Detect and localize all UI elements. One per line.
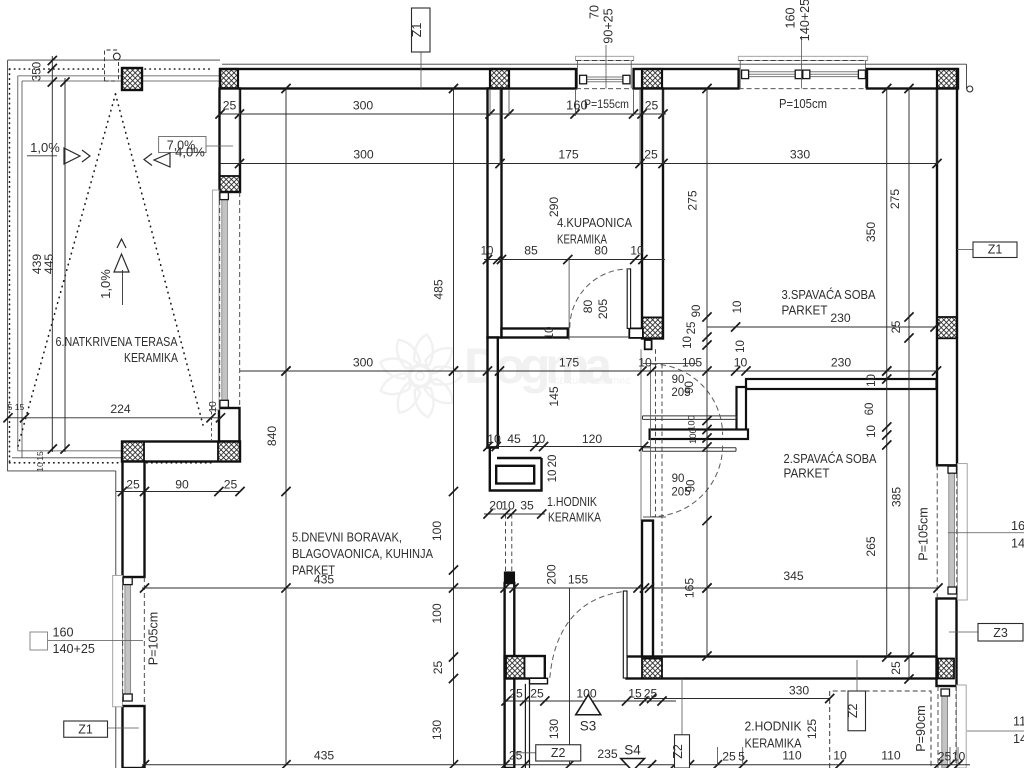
window right A <box>957 464 967 600</box>
roof overhang line top <box>222 63 967 65</box>
terrace outer edge bottom <box>8 470 116 472</box>
dim row bottom long <box>142 764 970 766</box>
svg-text:105: 105 <box>682 356 703 370</box>
svg-text:10: 10 <box>734 356 748 370</box>
leader Z1 right <box>957 249 973 251</box>
svg-text:25: 25 <box>530 687 544 701</box>
svg-text:330: 330 <box>790 148 811 162</box>
svg-text:100: 100 <box>430 603 444 624</box>
wall band terrace-living <box>122 442 240 462</box>
window left wing <box>212 190 219 410</box>
svg-text:5: 5 <box>8 402 13 412</box>
watermark logo <box>377 333 631 419</box>
Z2 box c <box>848 691 866 731</box>
door arc living-hodnik2 <box>550 592 624 678</box>
svg-text:1.HODNIK: 1.HODNIK <box>547 494 597 509</box>
svg-text:140+: 140+ <box>1013 732 1024 746</box>
svg-text:3.SPAVAĆA SOBA: 3.SPAVAĆA SOBA <box>782 287 876 302</box>
door opening dash hodnik right <box>655 349 657 517</box>
svg-text:S3: S3 <box>580 719 597 734</box>
wall left living lower <box>123 706 145 768</box>
extension ticks bottom <box>716 747 718 765</box>
hatch right wall <box>937 317 957 338</box>
dim line 275 left <box>706 89 708 657</box>
svg-text:100: 100 <box>430 521 444 542</box>
window left label box <box>30 632 48 650</box>
svg-text:Z2: Z2 <box>551 746 566 760</box>
svg-text:10: 10 <box>866 374 878 387</box>
door leaf line hodnik-room2 <box>643 516 666 518</box>
svg-text:175: 175 <box>558 148 579 162</box>
sliding door track upper <box>643 415 737 417</box>
dim line 840 <box>285 89 287 765</box>
terrace dotted boundary top <box>10 68 106 70</box>
wall right column <box>937 599 957 687</box>
wall bathroom left <box>488 89 502 338</box>
svg-text:275: 275 <box>686 190 700 211</box>
parallel wall lines below <box>524 684 526 768</box>
svg-text:25: 25 <box>644 148 658 162</box>
svg-text:345: 345 <box>783 569 804 583</box>
wall face lines hodnik openings <box>640 349 642 520</box>
dim row room3 230 <box>707 326 937 328</box>
wall bottom band west <box>505 656 545 679</box>
svg-text:25: 25 <box>891 321 903 334</box>
svg-text:25: 25 <box>645 99 659 113</box>
svg-text:10: 10 <box>952 750 966 764</box>
dim row top first <box>220 113 666 115</box>
wall right upper <box>937 89 957 466</box>
door arc bathroom <box>570 269 629 328</box>
svg-text:10: 10 <box>501 499 515 513</box>
svg-text:Z2: Z2 <box>846 703 860 718</box>
hatch left wing <box>220 176 241 192</box>
wall top segment A <box>220 69 576 89</box>
shaft inner box <box>496 466 534 484</box>
section mark S3 <box>576 695 601 715</box>
svg-text:385: 385 <box>890 487 904 508</box>
terrace outer edge top <box>8 59 220 61</box>
closet dashed outline hodnik2 <box>830 691 931 768</box>
svg-text:20: 20 <box>547 455 559 468</box>
wall hodnik right lower <box>642 521 653 657</box>
svg-text:35: 35 <box>520 499 534 513</box>
dim row middle long <box>240 370 937 372</box>
svg-text:435: 435 <box>314 749 335 763</box>
window right B <box>956 685 966 768</box>
terrace wall dash piece <box>211 406 213 440</box>
building edge line below terrace <box>115 471 117 768</box>
svg-text:445: 445 <box>42 254 56 275</box>
svg-text:Z3: Z3 <box>993 626 1008 640</box>
svg-text:5.DNEVNI BORAVAK,: 5.DNEVNI BORAVAK, <box>292 530 402 545</box>
svg-text:140+25: 140+25 <box>53 642 95 656</box>
svg-text:90: 90 <box>691 305 703 318</box>
threshold step living door <box>530 678 548 684</box>
svg-text:P=155cm: P=155cm <box>584 97 629 111</box>
dim row door 100 <box>504 700 676 702</box>
svg-text:140+25: 140+25 <box>798 0 812 41</box>
svg-text:110: 110 <box>1013 715 1024 729</box>
svg-text:130: 130 <box>547 719 561 740</box>
dim row 330 hodnik2 <box>634 698 830 700</box>
wall bathroom bottom <box>502 329 568 338</box>
svg-text:5: 5 <box>738 750 745 764</box>
svg-text:85: 85 <box>524 244 538 258</box>
svg-text:300: 300 <box>353 99 374 113</box>
extension lines top dims <box>489 90 491 116</box>
wall bathroom right <box>642 89 663 339</box>
svg-text:Z1: Z1 <box>410 23 424 38</box>
wall z-vertical <box>737 387 747 439</box>
svg-text:165: 165 <box>683 578 697 599</box>
hatch wall top-mid <box>642 69 662 89</box>
wall left wing <box>220 89 241 193</box>
svg-text:25: 25 <box>938 750 952 764</box>
terrace inner edge lines bottom <box>18 450 220 452</box>
window P=155 top <box>576 56 634 60</box>
terrace dotted boundary bottom <box>10 462 214 464</box>
svg-text:110: 110 <box>881 749 901 763</box>
svg-text:205: 205 <box>596 299 610 320</box>
hatch bathroom right <box>642 317 663 338</box>
Z3 box <box>978 624 1023 642</box>
svg-text:90: 90 <box>175 478 189 492</box>
Z2 box b <box>675 735 690 768</box>
dim row top second <box>220 163 937 165</box>
leader Z1 bottomleft <box>108 727 139 729</box>
svg-text:4,0%: 4,0% <box>175 145 205 160</box>
svg-text:60: 60 <box>864 403 876 416</box>
svg-text:PARKET: PARKET <box>292 563 335 578</box>
svg-text:25: 25 <box>224 478 238 492</box>
svg-text:10: 10 <box>207 401 219 413</box>
svg-text:16: 16 <box>1011 519 1024 533</box>
sliding door track lower <box>643 447 737 449</box>
svg-text:6.NATKRIVENA TERASA: 6.NATKRIVENA TERASA <box>56 334 178 349</box>
downpipe circle top-left <box>113 53 120 60</box>
roof overhang line right <box>966 64 968 89</box>
svg-text:140+2: 140+2 <box>1011 537 1024 551</box>
svg-text:110: 110 <box>782 749 802 763</box>
door jamb black hodnik2 <box>505 572 515 583</box>
svg-text:10: 10 <box>532 432 546 446</box>
svg-text:25: 25 <box>431 661 445 675</box>
wall bottom band east <box>627 657 937 679</box>
svg-text:10: 10 <box>866 425 878 438</box>
dim line 485 <box>453 89 455 765</box>
dim row bathroom <box>484 259 665 261</box>
svg-text:AGENCIJA ZA NEKRETNINE: AGENCIJA ZA NEKRETNINE <box>551 377 631 386</box>
svg-text:10: 10 <box>547 470 559 483</box>
svg-text:10: 10 <box>735 340 747 353</box>
leader slope box <box>206 145 233 147</box>
svg-text:230: 230 <box>831 356 852 370</box>
svg-text:25: 25 <box>722 750 736 764</box>
svg-text:25: 25 <box>644 687 658 701</box>
svg-text:KERAMIKA: KERAMIKA <box>557 232 607 247</box>
svg-text:125: 125 <box>805 719 819 740</box>
leader window top1 <box>605 45 607 89</box>
svg-text:10: 10 <box>638 356 652 370</box>
svg-text:100: 100 <box>688 428 699 444</box>
hatch wall top-left <box>220 69 238 89</box>
terrace pillar <box>122 68 142 90</box>
svg-text:10: 10 <box>732 301 744 314</box>
terrace outer edge left <box>7 60 9 471</box>
dim row band 25-90-25 <box>116 491 241 493</box>
svg-text:KERAMIKA: KERAMIKA <box>745 736 802 751</box>
svg-text:P=105cm: P=105cm <box>147 612 161 666</box>
window P=105 top <box>738 56 867 60</box>
door leaf line hodnik top <box>643 363 697 365</box>
svg-text:485: 485 <box>432 279 446 300</box>
svg-text:PARKET: PARKET <box>784 466 830 481</box>
roof drain circle top-right <box>967 86 973 92</box>
wall left living upper <box>123 462 145 578</box>
wall top segment C <box>867 69 958 89</box>
leader Z2 b <box>681 679 683 735</box>
svg-text:10: 10 <box>544 327 556 340</box>
terrace inner edge lines top <box>18 75 122 77</box>
hatch bottom band west <box>506 656 525 679</box>
wall z-bottom room2 <box>650 430 748 440</box>
svg-text:235: 235 <box>597 747 618 761</box>
svg-text:15: 15 <box>15 402 25 412</box>
leader window right11 <box>967 730 1024 732</box>
door opening dashes hodnik2 pass <box>505 514 507 572</box>
wall partition hodnik upper <box>488 338 498 448</box>
door threshold bathroom <box>568 336 629 338</box>
svg-text:2.SPAVAĆA SOBA: 2.SPAVAĆA SOBA <box>784 451 877 466</box>
svg-text:25: 25 <box>509 749 523 763</box>
svg-text:90: 90 <box>684 381 696 394</box>
svg-text:175: 175 <box>559 356 580 370</box>
svg-text:P=105cm: P=105cm <box>779 97 827 111</box>
terrace slope diagonal left <box>18 94 116 446</box>
dim row niche 20-10-35 <box>484 513 545 515</box>
wall partition hodnik lower <box>505 583 515 768</box>
svg-text:KERAMIKA: KERAMIKA <box>548 510 601 525</box>
svg-text:P=90cm: P=90cm <box>914 705 928 752</box>
svg-text:BLAGOVAONICA, KUHINJA: BLAGOVAONICA, KUHINJA <box>292 546 433 561</box>
window left living <box>113 575 123 706</box>
downpipe dashed box top-left <box>105 50 119 81</box>
door jamb hodnik <box>645 340 652 349</box>
terrace inner edge lines left <box>17 76 19 451</box>
door leaf bathroom <box>627 269 630 329</box>
svg-text:330: 330 <box>789 684 810 698</box>
terrace dotted boundary left <box>9 69 11 463</box>
svg-text:15: 15 <box>628 687 642 701</box>
door leaf living-hodnik2 <box>623 591 627 678</box>
svg-text:120: 120 <box>582 432 603 446</box>
wall z-top room3 <box>746 379 937 389</box>
svg-text:10: 10 <box>630 244 644 258</box>
door arc hodnik-room2 <box>652 446 723 517</box>
svg-text:25: 25 <box>889 661 903 675</box>
leader window top2 <box>801 36 803 89</box>
shaft outline <box>489 448 543 491</box>
hatch band west <box>122 442 144 462</box>
door stop bathroom <box>629 328 643 338</box>
dim line terrace 350 <box>51 56 53 452</box>
svg-text:1,0%: 1,0% <box>30 140 60 155</box>
svg-text:160: 160 <box>53 626 74 640</box>
dim row shaft <box>486 446 650 448</box>
svg-text:80: 80 <box>581 300 595 314</box>
svg-text:145: 145 <box>547 386 561 407</box>
svg-text:155: 155 <box>568 573 589 587</box>
dim line 350-265 <box>886 89 888 658</box>
svg-text:25: 25 <box>509 687 523 701</box>
wall corner block left <box>219 408 240 442</box>
svg-text:90+25: 90+25 <box>602 8 616 43</box>
svg-text:275: 275 <box>888 189 902 210</box>
svg-text:1,0%: 1,0% <box>98 269 113 299</box>
svg-text:10: 10 <box>481 246 494 258</box>
svg-text:10: 10 <box>833 749 847 763</box>
svg-text:300: 300 <box>353 148 374 162</box>
leader window left <box>48 640 143 642</box>
svg-text:Z1: Z1 <box>78 723 93 737</box>
dim line 275-385 right <box>908 89 910 680</box>
Z1 box right <box>973 242 1017 258</box>
svg-text:130: 130 <box>430 720 444 741</box>
leader Z2 a <box>514 752 535 754</box>
leader Z2 c <box>856 660 858 691</box>
hatch wall top-bath <box>490 69 509 89</box>
leader Z3 <box>949 631 978 633</box>
Z1 box bottomleft <box>64 721 108 737</box>
Z1 box top <box>412 8 431 52</box>
svg-text:300: 300 <box>353 356 374 370</box>
dim row 435-155-345 <box>142 587 938 589</box>
wall top segment B <box>634 69 739 89</box>
svg-text:4.KUPAONICA: 4.KUPAONICA <box>557 215 632 230</box>
svg-text:10: 10 <box>487 432 501 446</box>
svg-text:160: 160 <box>784 7 798 28</box>
svg-text:350: 350 <box>864 222 878 243</box>
terrace slope diagonal right <box>116 94 204 425</box>
svg-text:10: 10 <box>35 462 45 472</box>
hatch bottom band mid <box>642 659 662 679</box>
hatch band east <box>218 442 240 462</box>
svg-text:90: 90 <box>672 374 685 386</box>
dim ext bathroom door <box>568 260 570 341</box>
svg-text:200: 200 <box>545 564 559 585</box>
dim row terrace 224 <box>8 417 221 419</box>
svg-text:25: 25 <box>686 322 698 335</box>
svg-text:Z1: Z1 <box>988 243 1003 257</box>
svg-text:840: 840 <box>265 426 279 447</box>
svg-text:2.HODNIK: 2.HODNIK <box>745 719 802 734</box>
svg-text:25: 25 <box>223 99 237 113</box>
hatch wall top-right <box>937 69 957 89</box>
slope box 70 <box>159 137 206 153</box>
leader window right16 <box>948 532 1024 534</box>
svg-text:90: 90 <box>686 480 698 493</box>
dim line 130 hodnik2 <box>569 588 571 765</box>
dim line terrace 445 <box>64 78 66 452</box>
svg-text:350: 350 <box>32 62 44 81</box>
svg-text:P=105cm: P=105cm <box>916 507 930 561</box>
svg-text:90: 90 <box>672 473 685 485</box>
svg-text:224: 224 <box>110 402 131 416</box>
svg-text:15: 15 <box>35 451 45 461</box>
svg-text:70: 70 <box>588 5 602 19</box>
svg-text:230: 230 <box>830 311 851 325</box>
Z2 box a <box>536 745 581 761</box>
svg-text:25: 25 <box>126 478 140 492</box>
hatch right column <box>938 659 954 679</box>
svg-text:10: 10 <box>682 336 694 349</box>
door arc hodnik top <box>652 364 723 435</box>
svg-text:265: 265 <box>864 536 878 557</box>
svg-text:PARKET: PARKET <box>782 303 828 318</box>
leader Z1 top <box>420 52 422 89</box>
svg-text:Z2: Z2 <box>671 744 685 759</box>
svg-text:45: 45 <box>507 432 521 446</box>
svg-text:S4: S4 <box>624 743 641 758</box>
svg-text:KERAMIKA: KERAMIKA <box>124 350 178 365</box>
